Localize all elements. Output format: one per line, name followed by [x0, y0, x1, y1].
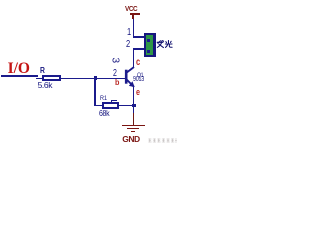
junction node emitter/R1 [132, 104, 136, 108]
transistor Q1 designator [137, 72, 143, 79]
terminal label b [115, 77, 119, 87]
power VCC bar [130, 13, 140, 15]
wire VCC to pin1 (vertical) [133, 19, 135, 37]
resistor R1 designator [100, 95, 107, 102]
resistor R1 marker nub [111, 100, 112, 103]
power VCC stem [132, 15, 134, 19]
power VCC label [125, 4, 137, 13]
wire pin1 lead (horizontal) [133, 36, 145, 38]
ground bar 1 [122, 125, 145, 127]
wire emitter down (vertical) [133, 87, 135, 113]
resistor R designator [40, 66, 45, 75]
terminal label c [136, 57, 140, 68]
transistor Q1 emitter diagonal [127, 80, 134, 87]
wire base (horizontal from resistor to transistor) [60, 78, 125, 80]
watermark (faint, drawn as SVG squiggles) [148, 138, 177, 143]
connector pin dot 1 [147, 39, 150, 42]
pin number 1 label [127, 27, 131, 38]
terminal label e [136, 87, 140, 97]
transistor pin 3 label (rotated) [109, 55, 120, 66]
connector body (LED module) [144, 33, 156, 57]
wire pin2 lead (horizontal) [133, 48, 145, 50]
wire R1 left lead [96, 105, 103, 106]
port I/O underline wire [1, 75, 38, 77]
resistor R (5.6k) body [42, 75, 61, 81]
wire R1 right lead [119, 105, 132, 106]
connector label 发光 (drawn as SVG strokes) [156, 39, 173, 50]
junction node base/R1 [94, 76, 98, 80]
port I/O label [8, 60, 30, 78]
ground bar 3 [131, 131, 135, 132]
transistor Q1 collector diagonal [127, 67, 134, 73]
wire into resistor R [36, 78, 43, 79]
transistor Q1 value 9013 [133, 76, 144, 83]
transistor Q1 emitter arrow [129, 81, 135, 87]
resistor R1 value 68k [99, 108, 109, 118]
wire junction down (vertical) [94, 79, 96, 106]
ground GND label [122, 134, 139, 144]
transistor pin 2 label (base) [113, 68, 117, 79]
ground bar 2 [127, 128, 139, 129]
pin number 2 label [126, 39, 130, 50]
ground stem (maroon) [133, 113, 135, 125]
resistor R1 marker dash [111, 100, 117, 101]
resistor R1 (68k) body [102, 102, 119, 109]
transistor Q1 base bar [125, 70, 128, 84]
transistor Q1 symbol [0, 0, 178, 149]
wire pin2 to collector (vertical) [133, 48, 135, 68]
resistor R value 5.6k [38, 80, 52, 90]
connector pin dot 2 [147, 50, 150, 54]
